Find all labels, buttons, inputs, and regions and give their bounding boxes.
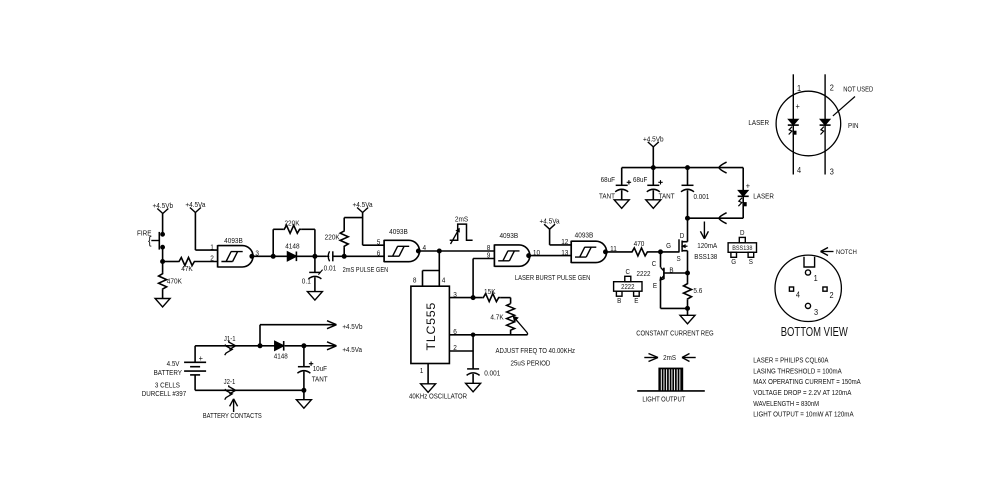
ground below 470K: [155, 299, 170, 308]
svg-text:4093B: 4093B: [224, 236, 243, 245]
wire 555 pins 8,4 bracket: [438, 251, 440, 286]
wire battery top to J1: [195, 345, 260, 347]
wire pin1-4 vertical: [792, 74, 794, 174]
svg-text:2mS: 2mS: [455, 214, 468, 223]
notch rectangle: [804, 257, 815, 267]
node gate drive junction: [659, 250, 663, 254]
pin 2 bottom view: [823, 287, 827, 291]
svg-text:8: 8: [413, 276, 417, 285]
svg-text:6: 6: [377, 249, 381, 258]
pin 3 bottom view: [805, 303, 810, 308]
wire bottom rail: [688, 217, 744, 219]
pin 2 wire of 555: [449, 350, 473, 352]
svg-text:40KHz OSCILLATOR: 40KHz OSCILLATOR: [409, 392, 467, 401]
svg-text:DURCELL #397: DURCELL #397: [142, 389, 186, 398]
diode laser inside package: [789, 119, 799, 125]
op-gate U1D 4093B pins 12,13,11: [570, 241, 572, 263]
capacitor 0.1: [314, 256, 316, 272]
node +4.5Vb branch: [258, 344, 262, 348]
node supply junction: [651, 166, 655, 170]
arrow 120mA current: [703, 222, 705, 239]
svg-text:470: 470: [634, 239, 645, 248]
svg-text:+4.5Vb: +4.5Vb: [342, 322, 362, 331]
svg-text:+: +: [796, 101, 800, 111]
svg-text:NOTCH: NOTCH: [836, 249, 857, 256]
svg-text:VOLTAGE DROP = 2.2V AT 120mA: VOLTAGE DROP = 2.2V AT 120mA: [753, 388, 851, 397]
resistor 47K: [163, 261, 178, 263]
package 2222 SOT-23: [614, 282, 642, 292]
wire pin6 to 0.001 cap: [472, 335, 474, 369]
svg-text:3 CELLS: 3 CELLS: [155, 380, 180, 389]
svg-text:MAX OPERATING CURRENT = 150mA: MAX OPERATING CURRENT = 150mA: [753, 377, 861, 386]
svg-text:LASING THRESHOLD = 100mA: LASING THRESHOLD = 100mA: [753, 366, 842, 375]
wire switch to node: [162, 247, 164, 261]
transistor Q1 2222 npn: [660, 252, 662, 267]
ground battery: [296, 400, 311, 409]
wire feedback right vertical: [314, 229, 316, 256]
svg-text:4148: 4148: [274, 351, 288, 360]
node base-source junction: [686, 271, 690, 275]
svg-text:25uS PERIOD: 25uS PERIOD: [511, 359, 551, 368]
svg-text:2mS PULSE GEN: 2mS PULSE GEN: [343, 265, 389, 274]
svg-text:2mS: 2mS: [663, 353, 676, 362]
op-gate U1A 4093B pins 1,2,3: [217, 245, 219, 267]
svg-text:9: 9: [487, 251, 491, 260]
svg-text:S: S: [677, 254, 681, 263]
wire gate3 output to gate4 pin13: [529, 255, 572, 257]
potentiometer 4.7K: [510, 298, 512, 304]
svg-text:4.5V: 4.5V: [167, 359, 180, 368]
svg-text:BOTTOM VIEW: BOTTOM VIEW: [781, 325, 848, 339]
svg-text:B: B: [617, 296, 621, 305]
node feedback left junction: [271, 254, 275, 258]
svg-text:0.01: 0.01: [324, 264, 337, 273]
wire to mosfet gate: [661, 251, 680, 253]
svg-text:4: 4: [442, 276, 446, 285]
wire emitter bottom: [661, 307, 688, 309]
svg-text:G: G: [666, 241, 671, 250]
pin 1 bottom view: [805, 270, 810, 275]
waveform light output burst: [637, 390, 705, 392]
op-gate U1B 4093B pins 5,6,4: [383, 240, 385, 262]
svg-text:+4.5Vb: +4.5Vb: [153, 201, 174, 210]
capacitor 0.001 oscillator: [467, 368, 479, 370]
svg-text:2: 2: [829, 290, 833, 300]
svg-text:5.6: 5.6: [693, 286, 702, 295]
node junction fire/47K/470K: [161, 260, 165, 264]
power +4.5Va above 220K: [357, 208, 363, 213]
wire 0.1 to ground: [314, 277, 316, 291]
node 10uF junction: [302, 344, 306, 348]
wire to +4.5Va arrow: [304, 345, 336, 347]
connector J2-1: [229, 385, 236, 394]
svg-text:68uF: 68uF: [633, 175, 648, 184]
svg-text:5: 5: [377, 238, 381, 247]
arrow 2mS right: [683, 357, 696, 359]
svg-text:3: 3: [830, 167, 834, 177]
capacitor 68uF tant 1: [621, 168, 623, 186]
svg-text:LASER BURST PULSE GEN: LASER BURST PULSE GEN: [515, 273, 591, 282]
node ground junction: [302, 388, 306, 392]
svg-text:ADJUST FREQ TO 40.00KHz: ADJUST FREQ TO 40.00KHz: [496, 346, 576, 355]
wire mosfet drain up: [687, 218, 689, 242]
power +4.5Vb laser rail: [648, 142, 654, 147]
svg-text:13: 13: [561, 248, 568, 257]
pin 3 wire of 555: [449, 297, 482, 299]
diode package circle side view: [776, 91, 841, 156]
capacitor 0.01 series: [315, 255, 327, 257]
svg-text:D: D: [740, 228, 745, 237]
node pin3 junction: [471, 296, 475, 300]
svg-text:1: 1: [210, 242, 214, 251]
resistor 470K: [162, 262, 164, 273]
node drain junction: [686, 216, 690, 220]
pin 4 bottom view: [789, 287, 793, 291]
diode 4148 battery: [260, 345, 275, 347]
svg-text:0.1: 0.1: [302, 276, 311, 285]
svg-text:2222: 2222: [637, 269, 651, 278]
op-gate U1C 4093B pins 8,9,10: [493, 244, 495, 266]
ground below pin1: [421, 384, 436, 393]
svg-text:E: E: [653, 281, 657, 290]
arrow 2mS left: [644, 357, 657, 359]
svg-text:0.001: 0.001: [484, 368, 500, 377]
resistor 15K: [482, 294, 500, 302]
wire to gate2 pin6: [344, 255, 384, 257]
svg-text:4148: 4148: [285, 241, 299, 250]
svg-text:E: E: [634, 296, 638, 305]
diode D2 laser: [742, 168, 744, 191]
power +4.5Vb supply top-left: [157, 209, 163, 214]
svg-text:0.001: 0.001: [694, 192, 710, 201]
wire +4.5Va to gate pin1: [194, 213, 196, 251]
node bottom junction: [686, 306, 690, 310]
capacitor 10uF tant: [303, 346, 305, 367]
svg-text:PIN: PIN: [848, 121, 859, 130]
svg-text:TLC555: TLC555: [424, 302, 438, 351]
node gate2 output to 555 junction: [437, 249, 441, 253]
ground below 68uF 1: [614, 200, 629, 209]
svg-text:WAVELENGTH = 830nM: WAVELENGTH = 830nM: [753, 399, 819, 408]
svg-text:+4.5Va: +4.5Va: [185, 200, 206, 209]
svg-text:LASER: LASER: [748, 118, 769, 127]
svg-text:4: 4: [797, 165, 801, 175]
svg-text:S: S: [749, 257, 753, 266]
arrow battery contacts: [233, 400, 235, 413]
svg-text:+: +: [199, 353, 203, 363]
waveform 2mS pulse symbol: [450, 224, 473, 240]
svg-text:12: 12: [561, 237, 568, 246]
power +4.5Va supply left: [190, 208, 196, 213]
svg-text:4: 4: [796, 289, 800, 299]
ground below 0.1: [307, 292, 322, 301]
arrow notch pointer: [821, 251, 834, 253]
node 0.001 top junction: [686, 166, 690, 170]
wire 47K to gate pin2: [196, 261, 218, 263]
svg-text:BSS138: BSS138: [732, 245, 753, 252]
svg-text:D: D: [680, 231, 685, 240]
svg-text:3: 3: [453, 290, 457, 299]
wire +4.5Vb to switch: [162, 214, 164, 235]
connector chevron top: [723, 161, 725, 163]
connector J1-1: [229, 341, 236, 350]
wire branch up to +4.5Vb arrow: [259, 325, 261, 346]
svg-text:4093B: 4093B: [389, 227, 408, 236]
switch FIRE pushbutton: [161, 232, 165, 236]
svg-text:15K: 15K: [484, 287, 496, 296]
svg-text:+: +: [746, 180, 750, 190]
svg-text:4093B: 4093B: [499, 231, 518, 240]
power +4.5Va above gate4: [544, 224, 550, 229]
svg-text:1: 1: [420, 366, 424, 375]
svg-text:2: 2: [830, 83, 834, 93]
svg-text:2: 2: [453, 343, 457, 352]
resistor 5.6: [684, 283, 692, 300]
svg-text:120mA: 120mA: [697, 241, 717, 250]
svg-text:1: 1: [814, 273, 818, 283]
resistor 220K feedback: [272, 229, 274, 256]
wire pin3 to gate3 pin9: [472, 259, 474, 298]
svg-text:470K: 470K: [167, 276, 182, 285]
wire 2222 base: [664, 272, 688, 274]
svg-text:LIGHT OUTPUT: LIGHT OUTPUT: [642, 395, 685, 404]
ground below 68uF 2: [646, 200, 661, 209]
wire gate1 output: [252, 255, 273, 257]
diode 4148 feedback: [287, 252, 296, 261]
connector chevron bottom: [723, 212, 725, 214]
transistor Q2 BSS138 mosfet: [678, 239, 680, 252]
svg-text:10uF: 10uF: [313, 364, 328, 373]
svg-text:6: 6: [453, 327, 457, 336]
wire +4.5Va branch to gate2 pin5: [363, 244, 385, 246]
wire to ground: [303, 390, 305, 399]
svg-text:CONSTANT CURRENT REG: CONSTANT CURRENT REG: [636, 329, 714, 338]
capacitor 0.001 laser: [687, 168, 689, 186]
node pin6 junction: [471, 333, 475, 337]
svg-text:LASER = PHILIPS CQL60A: LASER = PHILIPS CQL60A: [753, 356, 828, 365]
svg-text:4093B: 4093B: [575, 231, 594, 240]
svg-text:BATTERY CONTACTS: BATTERY CONTACTS: [203, 411, 262, 420]
svg-text:C: C: [626, 267, 631, 276]
svg-text:4.7K: 4.7K: [490, 313, 503, 322]
svg-text:2222: 2222: [621, 284, 634, 291]
svg-text:220K: 220K: [284, 219, 299, 228]
svg-text:TANT: TANT: [312, 375, 328, 384]
ground below 0.001: [466, 383, 481, 392]
wire 470K to ground: [162, 290, 164, 299]
svg-text:G: G: [731, 257, 736, 266]
svg-text:47K: 47K: [181, 264, 193, 273]
ground constant current reg: [680, 315, 695, 324]
wire top rail: [622, 167, 744, 169]
svg-text:1: 1: [797, 83, 801, 93]
svg-text:BSS138: BSS138: [694, 252, 717, 261]
svg-text:FIRE: FIRE: [137, 229, 152, 238]
diode package circle bottom view: [775, 255, 841, 321]
svg-text:J1-1: J1-1: [224, 336, 236, 343]
node 220K pullup junction: [342, 254, 346, 258]
wire pin2-3 vertical: [824, 74, 826, 174]
wire battery bottom: [195, 389, 304, 391]
svg-text:J2-1: J2-1: [224, 379, 236, 386]
op-amp U2 TLC555 timer: [411, 286, 450, 363]
battery BT1 4.5V: [194, 346, 196, 363]
pin 6 wire of 555: [449, 334, 527, 336]
svg-text:2: 2: [210, 254, 214, 263]
svg-text:+4.5Va: +4.5Va: [540, 217, 561, 226]
svg-text:BATTERY: BATTERY: [154, 368, 183, 377]
wire +4.5Va to gate4 pin12: [549, 229, 551, 245]
svg-text:+4.5Va: +4.5Va: [353, 200, 374, 209]
diode photodiode inside package: [820, 119, 830, 125]
wire mosfet source down: [687, 251, 689, 283]
package BSS138 SOT-23: [728, 243, 756, 253]
svg-text:LIGHT OUTPUT = 10mW AT 120mA: LIGHT OUTPUT = 10mW AT 120mA: [753, 410, 853, 419]
pin 1 wire of 555: [427, 364, 429, 384]
wire gate2 output to gate3 pin8: [418, 250, 494, 252]
capacitor 68uF tant 2: [652, 168, 654, 186]
svg-text:B: B: [669, 266, 673, 275]
resistor 470: [631, 248, 649, 256]
svg-text:+4.5Vb: +4.5Vb: [643, 134, 664, 143]
svg-text:220K: 220K: [325, 233, 340, 242]
node 0.1 cap junction: [313, 254, 317, 258]
svg-text:3: 3: [814, 307, 818, 317]
svg-text:C: C: [652, 259, 657, 268]
resistor 220K pullup: [343, 247, 345, 256]
svg-text:NOT USED: NOT USED: [843, 86, 873, 93]
svg-text:10: 10: [533, 248, 540, 257]
wire gate4 output to 470: [606, 251, 632, 253]
svg-text:+4.5Va: +4.5Va: [342, 345, 362, 354]
svg-text:68uF: 68uF: [601, 175, 616, 184]
svg-text:LASER: LASER: [753, 192, 774, 201]
wire to ground: [687, 308, 689, 315]
